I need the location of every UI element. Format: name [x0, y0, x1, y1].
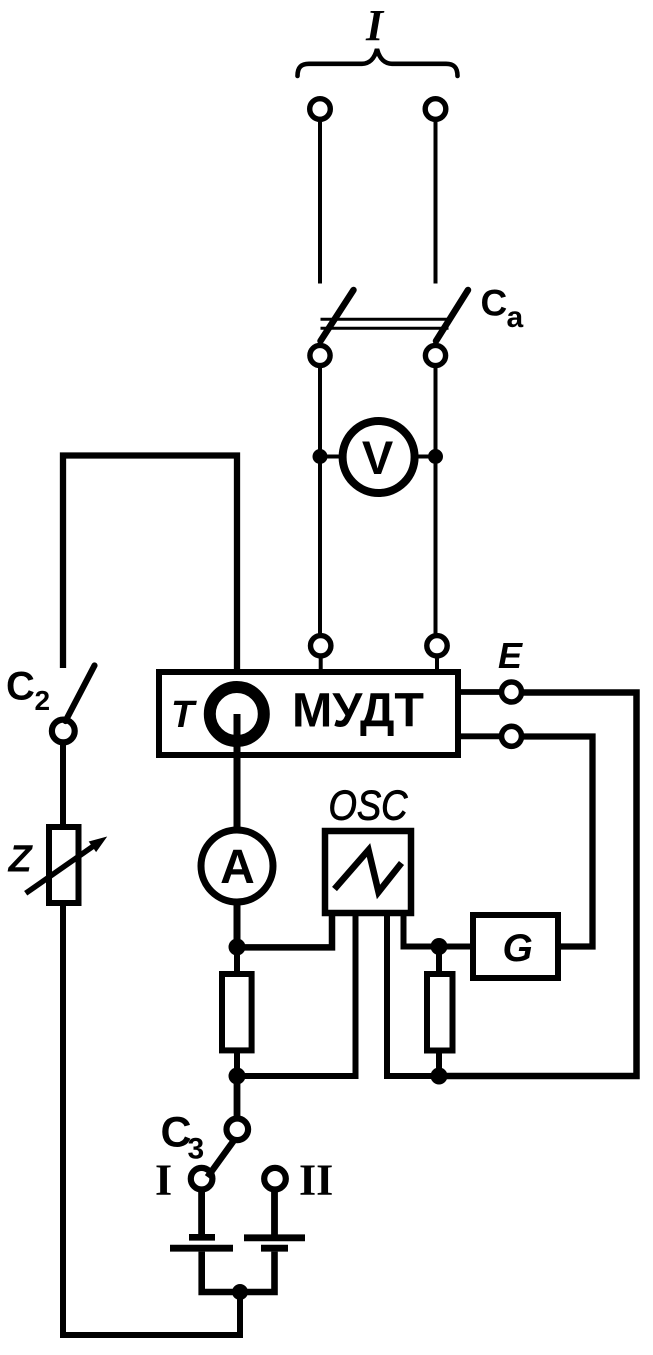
wire E2 down to G [522, 737, 593, 947]
svg-text:II: II [299, 1156, 333, 1205]
stub to E terminal 2 [458, 733, 502, 739]
svg-text:I: I [155, 1156, 172, 1205]
test object II lower wire [240, 1252, 275, 1292]
contact I [191, 1168, 213, 1190]
test object I lower wire [202, 1252, 240, 1292]
junction dot right of V [428, 449, 443, 464]
switch Ca left contact [310, 345, 330, 365]
svg-text:3: 3 [188, 1133, 205, 1166]
box OSC [325, 831, 411, 913]
junction dot right top [431, 938, 448, 955]
brace over input terminals [298, 49, 458, 76]
test object I wire [198, 1191, 205, 1237]
terminal MUDT top right [427, 636, 447, 656]
switch C2 blade [66, 666, 95, 722]
OSC pin 4 wire to G input [404, 913, 471, 947]
switch C3 upper contact [227, 1119, 249, 1141]
terminal E2 [502, 726, 522, 746]
svg-text:I: I [365, 1, 385, 50]
test object II bottom plate [261, 1245, 288, 1252]
variable impedance Z box [49, 827, 79, 903]
switch Ca right blade [436, 290, 468, 341]
svg-text:МУДТ: МУДТ [292, 684, 424, 738]
voltmeter V stub left [320, 455, 343, 459]
wire A to junction [234, 902, 241, 947]
wire left loop (top of C2 branch to MUDT input) [63, 456, 237, 673]
terminal input right [425, 99, 446, 120]
junction dot bottom [232, 1284, 248, 1300]
terminal E1 [502, 682, 522, 702]
switch Ca gang linkage (double line) [321, 318, 449, 321]
svg-text:a: a [507, 301, 524, 334]
box MUDT [159, 672, 458, 755]
Z adjustment arrow [26, 844, 96, 893]
contact II [264, 1168, 286, 1190]
junction dot right bottom [431, 1068, 448, 1085]
voltmeter V [343, 421, 415, 493]
svg-text:C: C [481, 282, 508, 323]
wire E1 right loop down to bottom bus [439, 693, 637, 1077]
stub to E terminal 1 [458, 689, 502, 695]
wire junction to OSC pin 1 [237, 913, 332, 947]
switch Ca left blade [321, 290, 354, 341]
test object II top plate [244, 1234, 305, 1241]
left measuring resistor [234, 947, 240, 974]
svg-text:Z: Z [8, 839, 34, 881]
svg-text:G: G [503, 927, 533, 970]
svg-text:T: T [171, 694, 197, 736]
wire bottom return bus [63, 906, 240, 1335]
voltmeter V stub right [414, 455, 436, 459]
svg-text:C: C [6, 664, 35, 708]
OSC pin 3 wire down-right to bottom bus [387, 913, 439, 1076]
ammeter A [201, 830, 273, 902]
svg-text:A: A [220, 841, 255, 894]
terminal MUDT top left [311, 636, 331, 656]
wire input right vertical [434, 122, 438, 284]
switch C3 blade [208, 1141, 234, 1177]
junction dot below A [229, 939, 246, 956]
wire left vertical to MUDT [318, 368, 322, 635]
oscillograph waveform zigzag [335, 850, 402, 892]
wire tap from winding centre down [234, 714, 241, 831]
wire right vertical to MUDT [434, 368, 438, 635]
junction dot left bottom [229, 1068, 246, 1085]
junction dot left of V [313, 449, 328, 464]
wire dot to right resistor [436, 947, 442, 975]
svg-text:2: 2 [35, 685, 51, 716]
test object I top plate [189, 1234, 215, 1241]
switch C2 contact [52, 720, 75, 743]
right measuring resistor [427, 974, 453, 1051]
svg-text:E: E [498, 635, 523, 676]
box G (generator) [473, 915, 558, 978]
OSC pin 2 wire down-left to bottom bus [237, 913, 356, 1076]
transformer T winding (bold ring) [210, 687, 264, 741]
wire input left vertical [318, 122, 322, 284]
svg-text:V: V [362, 431, 394, 484]
test object I bottom plate [170, 1245, 233, 1252]
svg-text:OSC: OSC [329, 782, 409, 829]
test object II wire [271, 1191, 278, 1237]
wire to C3 switch [234, 1076, 241, 1117]
terminal input left [310, 99, 331, 120]
switch Ca right contact [425, 345, 445, 365]
wire Z to C2 [60, 745, 66, 828]
